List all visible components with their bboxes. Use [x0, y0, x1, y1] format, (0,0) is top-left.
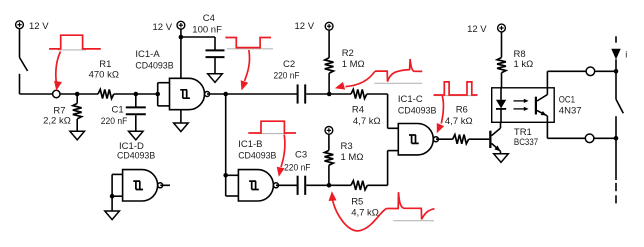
- resistor R5: [351, 181, 379, 219]
- ground under TR1: [494, 154, 509, 163]
- svg-text:C4: C4: [203, 13, 215, 24]
- waveform input pulse baseline: [58, 49, 86, 51]
- node A (C2/R2/R4): [327, 92, 332, 97]
- resistor R1: [89, 59, 119, 99]
- svg-text:i: i: [625, 49, 627, 59]
- wire phototransistor emitter: [546, 116, 548, 138]
- arrow to input terminal: [54, 52, 62, 91]
- wire R6 to TR1 base: [469, 138, 490, 140]
- LED inside OC1: [496, 88, 506, 123]
- input terminal circle: [53, 90, 60, 97]
- svg-text:R6: R6: [456, 105, 468, 116]
- svg-text:C2: C2: [283, 59, 295, 70]
- wire IC1-C output: [436, 138, 453, 140]
- resistor R2: [325, 30, 365, 94]
- svg-text:CD4093B: CD4093B: [238, 151, 276, 162]
- wire R1 to IC1-A input: [114, 93, 158, 95]
- wire bottom terminal to rail: [594, 137, 616, 139]
- wire supply to switch: [19, 29, 21, 58]
- phototransistor inside OC1: [535, 95, 548, 116]
- arrow to IC1-A output wire: [241, 50, 250, 91]
- op NAND gate IC1-D: [117, 141, 163, 201]
- svg-text:R3: R3: [341, 141, 353, 152]
- wire IC1-A output: [207, 93, 297, 95]
- resistor R4: [351, 89, 381, 127]
- optocoupler OC1 box: [492, 88, 582, 123]
- node C1 junction: [134, 92, 139, 97]
- svg-text:R5: R5: [351, 196, 363, 207]
- wire C3 to node: [306, 184, 351, 186]
- svg-text:4,7 kΩ: 4,7 kΩ: [351, 208, 379, 219]
- switch S1 blade: [20, 58, 28, 72]
- svg-text:1 MΩ: 1 MΩ: [341, 152, 364, 163]
- svg-text:C1: C1: [112, 105, 124, 116]
- load rail upper: [615, 59, 617, 99]
- svg-text:1 MΩ: 1 MΩ: [342, 59, 365, 70]
- node rail bottom: [614, 136, 619, 141]
- node IC1-A output: [223, 92, 228, 97]
- IC1-A input bracket: [158, 83, 170, 106]
- wire terminal to R1: [60, 93, 98, 95]
- op NAND gate IC1-C: [398, 94, 439, 155]
- wire IC1-D input to ground: [111, 196, 113, 211]
- svg-text:100 nF: 100 nF: [192, 24, 222, 35]
- waveform node B: [386, 192, 434, 219]
- svg-text:CD4093B: CD4093B: [135, 60, 173, 71]
- load rail lower: [615, 116, 617, 180]
- node R7 junction: [75, 92, 80, 97]
- arrow to IC1-B output: [277, 135, 285, 177]
- ground under C4: [208, 74, 223, 83]
- power terminal +12V (IC1-A): [153, 21, 185, 32]
- waveform IC1-B pulse: [248, 121, 296, 133]
- load switch blade: [616, 99, 623, 113]
- svg-text:12 V: 12 V: [467, 24, 487, 35]
- svg-text:220 nF: 220 nF: [284, 163, 311, 174]
- capacitor C2: [274, 59, 306, 103]
- ground under R7: [70, 131, 85, 140]
- svg-text:R1: R1: [99, 59, 111, 70]
- resistor R3: [325, 134, 364, 185]
- IC1-D input bracket: [112, 174, 123, 196]
- wire to bottom terminal: [547, 137, 585, 139]
- node IC1-D input: [110, 194, 115, 199]
- svg-text:4N37: 4N37: [559, 105, 582, 116]
- svg-text:4,7 kΩ: 4,7 kΩ: [353, 116, 381, 127]
- power terminal + (R3): [325, 126, 333, 134]
- svg-text:BC337: BC337: [514, 137, 538, 148]
- svg-text:220 nF: 220 nF: [274, 71, 300, 82]
- arrow to node A: [335, 71, 375, 89]
- node IC1-B input: [223, 173, 228, 178]
- output terminal (bottom): [585, 134, 594, 143]
- wire IC1-A Vdd pin: [180, 29, 182, 78]
- waveform IC1-C output: [434, 82, 478, 95]
- wire TR1 collector: [500, 122, 502, 128]
- wire switch to input terminal: [20, 74, 53, 94]
- resistor R6: [445, 105, 473, 144]
- output terminal (top): [586, 67, 595, 76]
- svg-text:CD4093B: CD4093B: [398, 105, 437, 116]
- svg-text:IC1-C: IC1-C: [398, 94, 423, 105]
- light arrows: [514, 99, 529, 111]
- wire to top terminal: [547, 70, 586, 72]
- svg-text:4,7 kΩ: 4,7 kΩ: [445, 116, 473, 127]
- resistor R8: [497, 32, 533, 88]
- wire IC1-A ground pin: [180, 110, 182, 123]
- svg-text:2,2 kΩ: 2,2 kΩ: [43, 116, 71, 127]
- svg-text:R2: R2: [342, 48, 354, 59]
- waveform node A: [375, 59, 422, 82]
- capacitor C1: [101, 94, 146, 131]
- wire top terminal to rail: [595, 70, 616, 72]
- load rail dashed bottom: [615, 183, 617, 204]
- arrow to node B: [329, 191, 387, 231]
- capacitor C4: [181, 13, 225, 74]
- waveform IC1-C output baseline: [434, 95, 477, 97]
- wire IC1-B output: [276, 184, 297, 186]
- svg-text:CD4093B: CD4093B: [117, 151, 155, 162]
- wire R4 to IC1-C upper input: [367, 94, 399, 128]
- waveform IC1-A output baseline: [227, 48, 273, 50]
- node rail top: [614, 69, 619, 74]
- svg-text:IC1-B: IC1-B: [238, 139, 262, 150]
- transistor TR1: [489, 127, 538, 151]
- IC1-B input bracket: [226, 175, 239, 196]
- node C4 branch: [179, 35, 184, 40]
- node B (C3/R3/R5): [327, 183, 332, 188]
- svg-text:C3: C3: [295, 150, 307, 161]
- ground under IC1-A: [174, 123, 189, 132]
- waveform node B baseline: [393, 220, 434, 222]
- waveform input pulse: [49, 35, 101, 49]
- wire IC1-D output stub: [160, 184, 170, 186]
- svg-text:IC1-A: IC1-A: [135, 49, 160, 60]
- svg-text:R4: R4: [352, 105, 364, 116]
- svg-text:12 V: 12 V: [153, 22, 173, 33]
- power terminal +12V (left): [16, 21, 50, 32]
- svg-text:220 nF: 220 nF: [101, 116, 128, 127]
- node IC1-A input: [155, 92, 160, 97]
- capacitor C3: [284, 150, 311, 195]
- power terminal +12V (R8): [467, 24, 505, 35]
- svg-text:OC1: OC1: [559, 95, 575, 106]
- wire R5 to IC1-C lower input: [367, 151, 398, 186]
- load rail dashed top: [615, 36, 617, 42]
- ground under IC1-D: [105, 211, 120, 220]
- wire phototransistor collector: [546, 71, 548, 94]
- waveform node A baseline: [374, 82, 422, 84]
- current arrow i: [611, 49, 627, 60]
- waveform IC1-A output: [225, 38, 271, 48]
- svg-text:12 V: 12 V: [295, 21, 315, 32]
- waveform IC1-B baseline: [259, 133, 287, 135]
- wire to IC1-B: [225, 94, 227, 175]
- wire TR1 emitter to ground: [500, 151, 502, 154]
- arrow to IC1-C output: [437, 96, 444, 133]
- op NAND gate IC1-A: [135, 49, 209, 110]
- ground under C1: [129, 131, 144, 140]
- resistor R7: [43, 94, 82, 131]
- svg-text:470 kΩ: 470 kΩ: [89, 70, 119, 81]
- svg-text:1 kΩ: 1 kΩ: [514, 59, 534, 70]
- svg-text:12 V: 12 V: [29, 21, 49, 32]
- power terminal +12V (R2): [295, 21, 334, 32]
- op NAND gate IC1-B: [238, 139, 278, 201]
- wire C2 to node: [306, 93, 351, 95]
